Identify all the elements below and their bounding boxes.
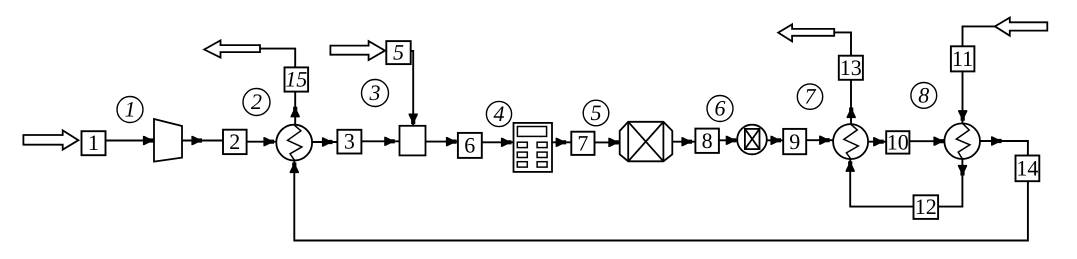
svg-text:1: 1 [125, 97, 136, 122]
svg-text:15: 15 [285, 67, 307, 92]
svg-text:8: 8 [918, 82, 929, 107]
svg-text:14: 14 [1016, 155, 1038, 180]
svg-text:10: 10 [887, 129, 909, 154]
svg-text:7: 7 [805, 84, 817, 109]
svg-text:5: 5 [591, 100, 602, 125]
svg-text:6: 6 [464, 132, 475, 157]
svg-text:3: 3 [344, 129, 355, 154]
svg-text:4: 4 [494, 101, 505, 126]
svg-text:13: 13 [840, 55, 862, 80]
svg-text:6: 6 [715, 96, 726, 121]
svg-text:2: 2 [229, 129, 240, 154]
svg-text:9: 9 [789, 129, 800, 154]
svg-text:12: 12 [915, 194, 937, 219]
svg-text:8: 8 [702, 128, 713, 153]
svg-text:5: 5 [393, 40, 404, 65]
svg-text:3: 3 [369, 80, 381, 105]
svg-text:11: 11 [952, 46, 973, 71]
svg-text:1: 1 [88, 130, 99, 155]
svg-text:7: 7 [577, 130, 588, 155]
svg-text:2: 2 [251, 89, 262, 114]
